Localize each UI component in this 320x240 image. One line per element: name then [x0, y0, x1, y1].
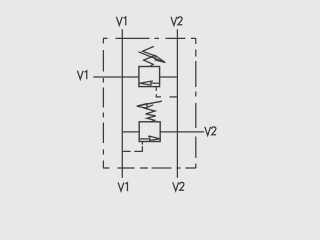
- RV1 flow path left stub: [139, 82, 140, 84]
- RV1 flow arrow (open, tip left): [140, 81, 151, 85]
- wire: V1 line to valve RV2 inlet: [122, 131, 139, 133]
- RV2 flow arrow top edge overshoot: [148, 135, 150, 137]
- RV1 pilot drain dash 2 (corner): [156, 94, 161, 97]
- RV2 flow arrow (open, tip right): [150, 136, 160, 140]
- port label V2 top: [171, 17, 182, 26]
- RV1 flow path right stub: [151, 82, 160, 84]
- wire: RV2 outlet to V2 label: [160, 131, 204, 133]
- port label V2 right: [205, 127, 216, 136]
- port label V1 top: [116, 17, 125, 26]
- wire: RV1 outlet to V2 line: [160, 76, 178, 78]
- enclosure border bottom: [103, 167, 196, 169]
- enclosure border left: [102, 38, 104, 168]
- RV1 pilot drain dash 3: [170, 96, 178, 98]
- RV2 pilot drain dash 2 (corner): [134, 146, 142, 151]
- wire: V1 vertical line: [121, 29, 123, 178]
- relief valve RV2 body: [139, 122, 160, 142]
- RV1 spring: [143, 46, 155, 66]
- port label V1 left: [77, 71, 86, 80]
- RV2 pilot drain dash 1: [141, 142, 143, 145]
- RV1 adjustment arrow shaft: [138, 52, 164, 63]
- RV2 adjustment arrow shaft: [139, 101, 162, 106]
- enclosure border right: [195, 38, 197, 168]
- RV2 adjustment arrow head: [137, 104, 147, 109]
- wire: V1 left branch to valve RV1: [93, 76, 139, 78]
- wire: V2 vertical line: [176, 29, 178, 178]
- RV1 adjustment arrow head: [155, 56, 165, 63]
- port label V2 bottom: [173, 182, 184, 191]
- port label V1 bottom: [118, 182, 127, 191]
- RV2 pilot drain dash 3: [122, 150, 130, 152]
- RV1 pilot drain dash 1: [155, 87, 157, 91]
- relief valve RV1 body: [139, 67, 160, 87]
- enclosure border top: [103, 37, 196, 39]
- RV2 flow path left stub: [139, 138, 150, 140]
- RV2 spring: [145, 105, 156, 122]
- RV1 flow arrow top edge overshoot: [151, 80, 153, 82]
